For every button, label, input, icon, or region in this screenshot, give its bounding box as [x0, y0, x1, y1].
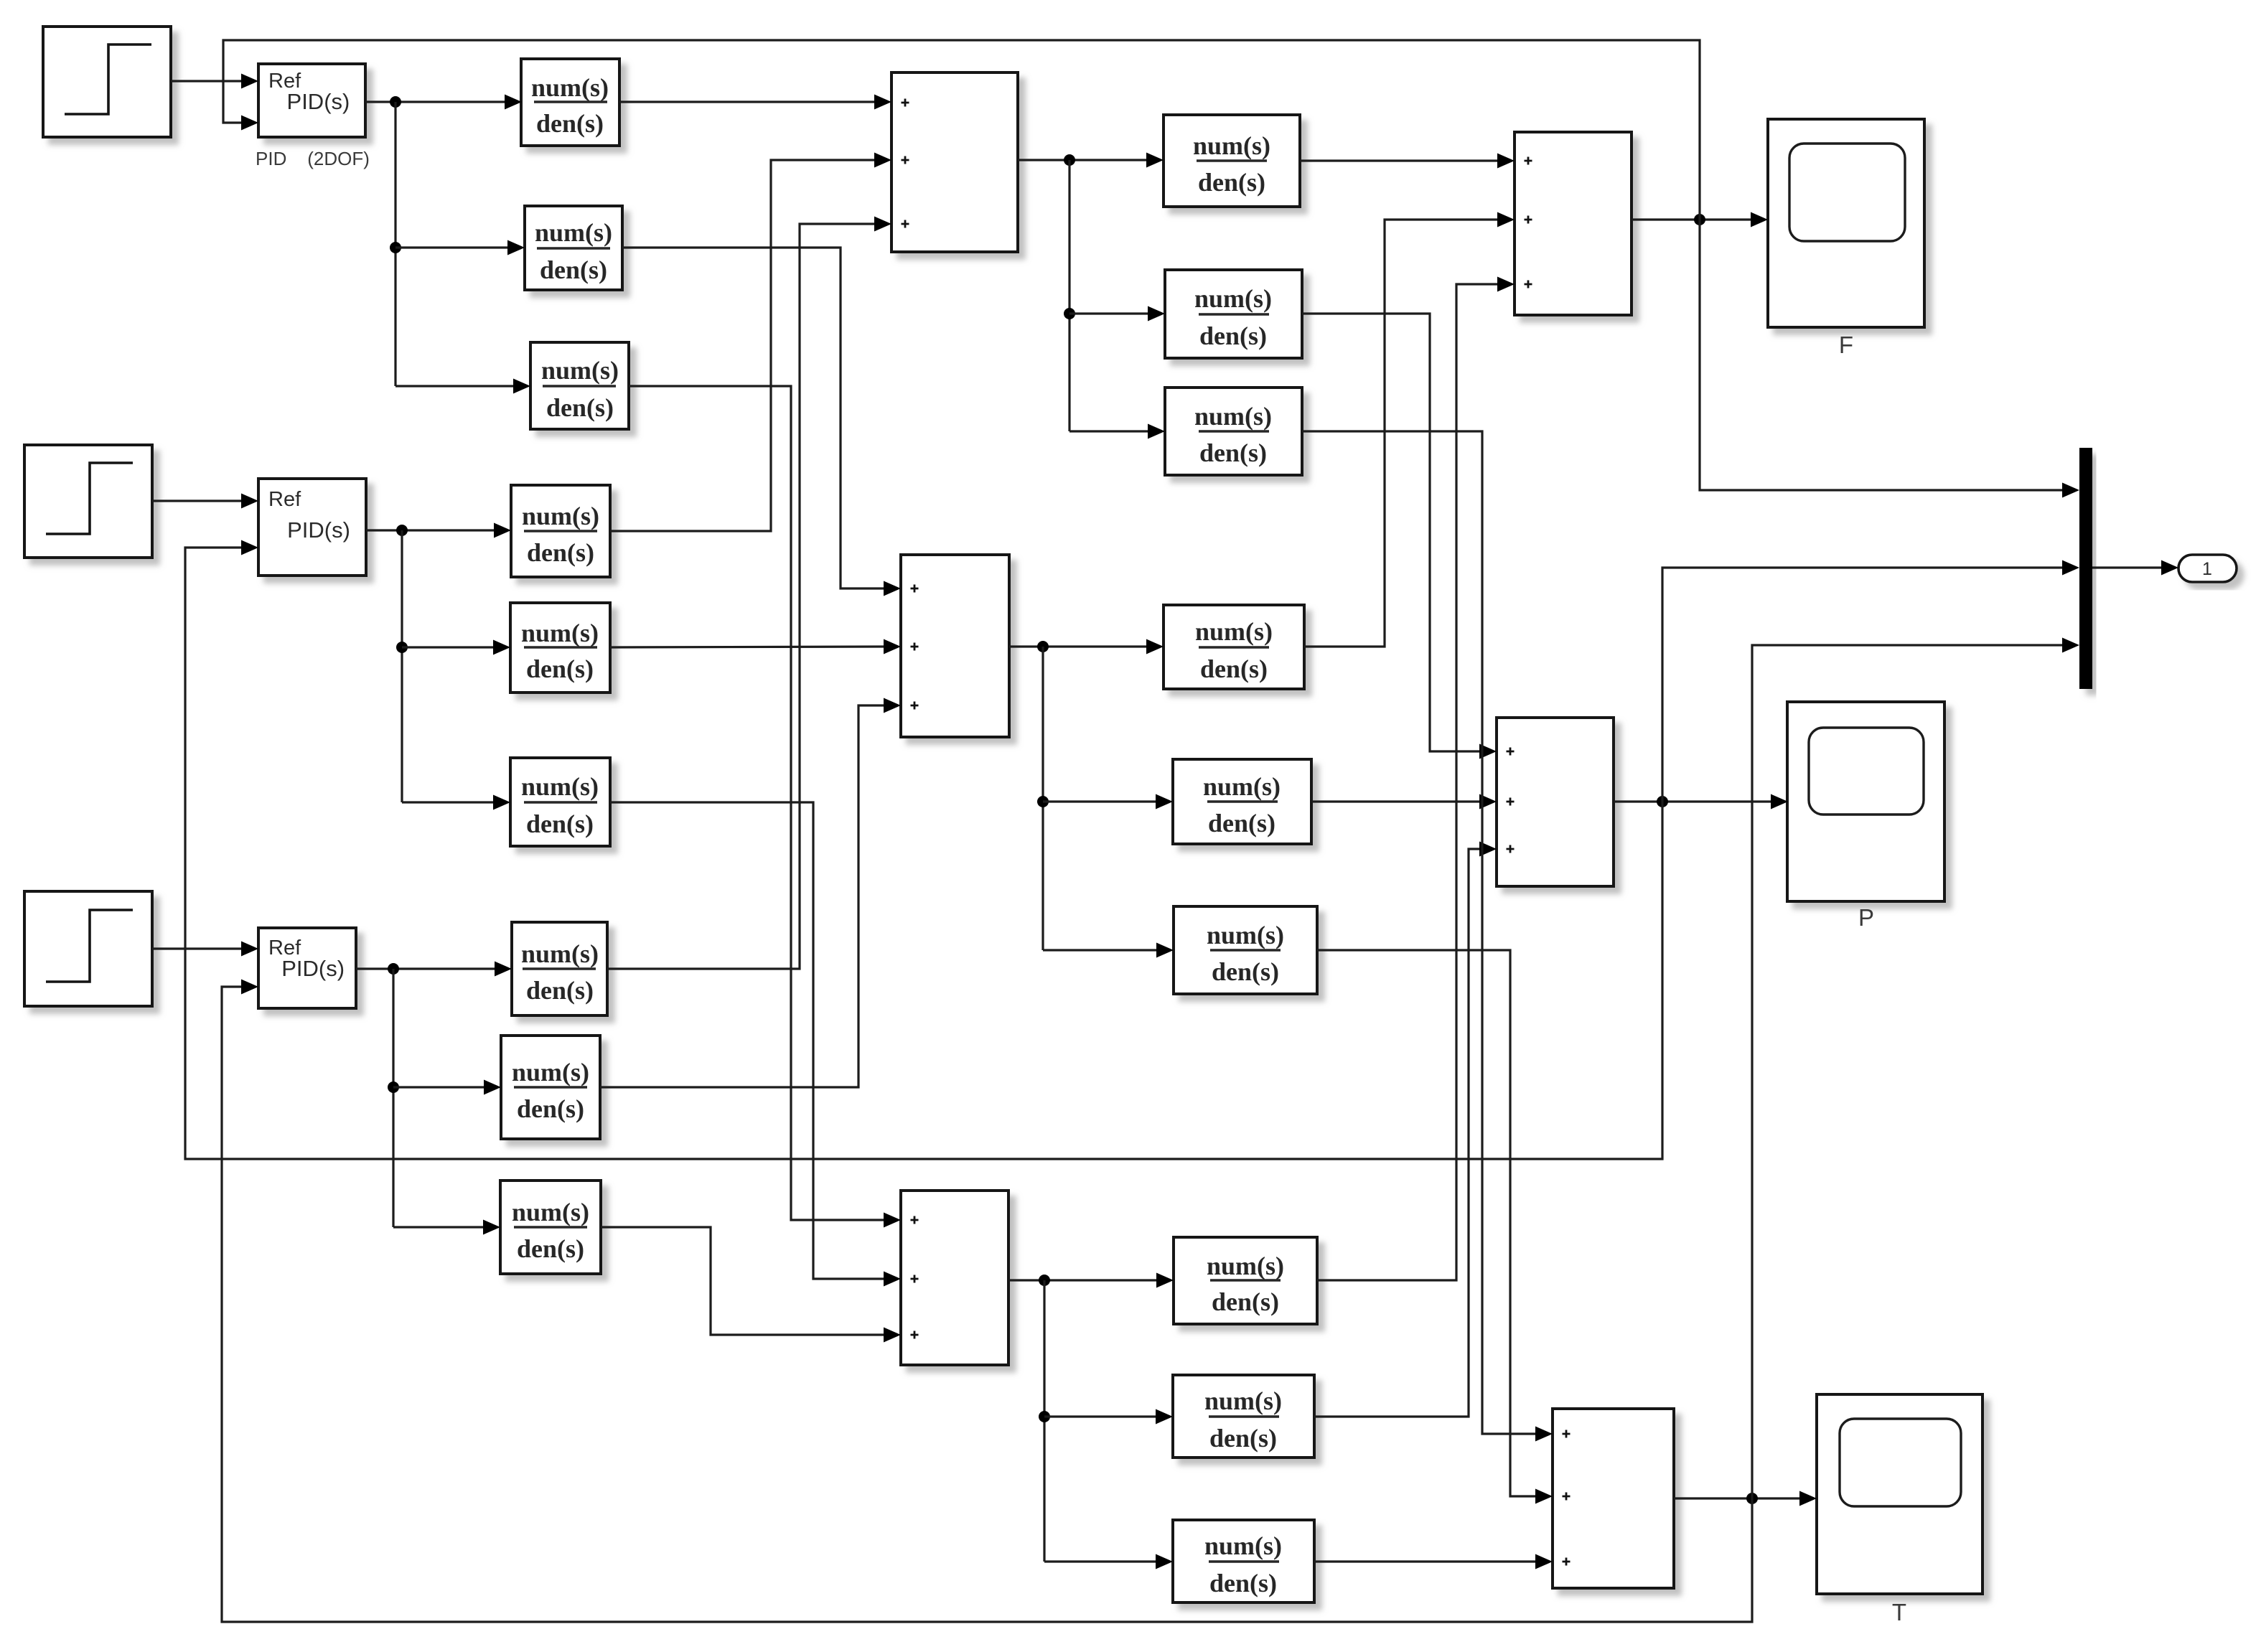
svg-text:den(s): den(s): [1212, 957, 1279, 986]
svg-text:den(s): den(s): [1212, 1287, 1279, 1316]
wire Add6 out to scope T: [1674, 1497, 1800, 1499]
scope P: [1787, 702, 1944, 901]
sum block Add5: [901, 1191, 1008, 1365]
wire H31 to Add2 in3: [1317, 284, 1497, 1280]
transfer function TF H13 num(s)/den(s): [1165, 388, 1302, 475]
wire G22 to Add3 in2: [610, 647, 884, 647]
wire G33 to Add5 in3: [601, 1227, 884, 1335]
transfer function TF H22 num(s)/den(s): [1173, 759, 1311, 844]
svg-text:den(s): den(s): [526, 976, 594, 1005]
wire branch to G21: [395, 246, 508, 248]
transfer function TF H11 num(s)/den(s): [1164, 115, 1300, 207]
wire Add5 out to H31: [1008, 1279, 1157, 1281]
sum block Add4: [1497, 718, 1614, 886]
svg-text:num(s): num(s): [1204, 1386, 1282, 1415]
svg-text:num(s): num(s): [541, 356, 619, 385]
PID controller PID (2DOF): [258, 64, 365, 137]
svg-text:num(s): num(s): [521, 772, 599, 801]
wire T feedback to PID3: [222, 987, 1752, 1622]
svg-text:num(s): num(s): [522, 502, 599, 530]
step input Step2: [24, 445, 152, 558]
svg-text:den(s): den(s): [1200, 654, 1268, 683]
wire G32 to Add5 in2: [610, 802, 884, 1279]
wire Add1 branch down: [1068, 160, 1070, 431]
svg-text:den(s): den(s): [540, 255, 607, 284]
wire G23 to Add3 in3: [600, 705, 884, 1087]
output port 1: [2178, 555, 2237, 582]
wire PID2 out branch down: [401, 530, 403, 802]
wire G31 to Add5 in1: [629, 386, 884, 1220]
wire branch to G31: [395, 385, 514, 387]
wire H13 to Add6 in1: [1302, 431, 1536, 1434]
svg-text:num(s): num(s): [1194, 402, 1272, 431]
svg-text:PID(s): PID(s): [287, 517, 350, 543]
PID controller PID3: [258, 928, 356, 1008]
svg-text:P: P: [1858, 904, 1874, 931]
svg-text:den(s): den(s): [517, 1094, 584, 1123]
wire branch to H22: [1043, 800, 1156, 802]
svg-text:1: 1: [2202, 559, 2212, 579]
wire PID1 out branch down: [394, 102, 396, 386]
transfer function TF H12 num(s)/den(s): [1165, 270, 1302, 358]
wire branch to H33: [1044, 1560, 1156, 1562]
svg-text:PID(s): PID(s): [287, 89, 350, 114]
wire Add5 branch down: [1043, 1280, 1045, 1562]
wire G12 to Add1 in2: [610, 160, 875, 531]
transfer function TF H31 num(s)/den(s): [1174, 1237, 1317, 1324]
svg-text:num(s): num(s): [1203, 772, 1281, 801]
wire PID3 out to G13: [356, 967, 495, 970]
wire H11 to Add2 in1: [1300, 159, 1497, 161]
transfer function TF G12 num(s)/den(s): [511, 485, 610, 577]
sum block Add3: [901, 555, 1009, 737]
wire branch to H12: [1069, 312, 1148, 314]
sum block Add1: [891, 72, 1018, 252]
wire H32 to Add4 in3: [1314, 849, 1480, 1417]
svg-text:num(s): num(s): [1195, 617, 1273, 646]
wire P to mux in2: [1662, 568, 2063, 802]
wire PID3 out branch down: [392, 969, 394, 1227]
svg-text:den(s): den(s): [1199, 438, 1267, 467]
svg-text:den(s): den(s): [526, 654, 594, 683]
transfer function TF G22 num(s)/den(s): [510, 603, 610, 693]
wire Step1 to PID1 Ref: [171, 80, 242, 82]
step input Step1: [43, 27, 171, 137]
svg-text:T: T: [1892, 1599, 1906, 1625]
mux Mux1: [2079, 448, 2092, 689]
wire G21 to Add3 in1: [622, 248, 884, 588]
wire F to mux in1: [1700, 220, 2063, 490]
svg-text:num(s): num(s): [1207, 1252, 1284, 1280]
wire T to mux in3: [1752, 645, 2063, 1498]
svg-text:num(s): num(s): [1193, 131, 1270, 160]
svg-text:num(s): num(s): [1207, 921, 1284, 949]
wire branch to G22: [402, 646, 494, 648]
wire branch to G23: [393, 1086, 484, 1088]
transfer function TF G11 num(s)/den(s): [521, 59, 619, 146]
wire H12 to Add4 in1: [1302, 314, 1480, 751]
transfer function TF H23 num(s)/den(s): [1174, 906, 1317, 994]
scope F: [1768, 119, 1924, 327]
svg-text:PID(s): PID(s): [281, 956, 345, 981]
wire branch to G32: [402, 801, 494, 803]
transfer function TF G21 num(s)/den(s): [525, 206, 622, 290]
transfer function TF G23 num(s)/den(s): [501, 1036, 600, 1139]
svg-text:Ref: Ref: [268, 488, 301, 511]
svg-text:F: F: [1839, 332, 1853, 358]
transfer function TF G32 num(s)/den(s): [510, 758, 610, 846]
sum block Add6: [1553, 1409, 1674, 1588]
svg-text:num(s): num(s): [1204, 1531, 1282, 1560]
sum block Add2: [1515, 132, 1632, 315]
svg-text:den(s): den(s): [1209, 1424, 1277, 1452]
wire Add3 branch down: [1041, 647, 1044, 950]
svg-text:den(s): den(s): [527, 538, 594, 567]
svg-text:num(s): num(s): [1194, 284, 1272, 313]
svg-text:num(s): num(s): [512, 1198, 589, 1226]
transfer function TF H21 num(s)/den(s): [1164, 605, 1304, 689]
wire P feedback to PID2: [185, 548, 1662, 1159]
wire PID2 out to G12: [366, 529, 495, 531]
wire branch to H23: [1043, 949, 1157, 951]
wire branch to H13: [1069, 430, 1148, 432]
wire G13 to Add1 in3: [607, 224, 875, 969]
wire H23 to Add6 in2: [1317, 950, 1536, 1496]
wire H22 to Add4 in2: [1311, 800, 1480, 802]
svg-text:den(s): den(s): [1208, 809, 1275, 837]
svg-text:den(s): den(s): [526, 809, 594, 838]
svg-text:num(s): num(s): [521, 619, 599, 647]
wire F feedback to PID1: [223, 40, 1700, 220]
wire mux to out port 1: [2092, 566, 2162, 568]
wire Add3 out to H21: [1009, 645, 1147, 647]
wire Step3 to PID3 Ref: [152, 947, 242, 949]
svg-text:den(s): den(s): [1209, 1569, 1277, 1597]
wire PID1 out to G11: [365, 100, 505, 103]
scope T: [1817, 1394, 1983, 1594]
svg-text:num(s): num(s): [535, 218, 612, 247]
wire Add4 out to scope P: [1614, 800, 1771, 802]
svg-text:den(s): den(s): [1199, 322, 1267, 350]
wire Add1 out to H11: [1018, 159, 1147, 161]
wire Step2 to PID2 Ref: [152, 499, 242, 502]
transfer function TF G31 num(s)/den(s): [530, 342, 629, 429]
svg-text:den(s): den(s): [1198, 168, 1265, 197]
step input Step3: [24, 891, 152, 1006]
svg-text:den(s): den(s): [536, 109, 604, 138]
wire H21 to Add2 in2: [1304, 220, 1497, 647]
wire branch to G33: [393, 1226, 484, 1228]
wire branch to H32: [1044, 1415, 1156, 1417]
wire H33 to Add6 in3: [1314, 1560, 1536, 1562]
svg-text:num(s): num(s): [531, 73, 609, 102]
wire Add2 out to scope F: [1632, 218, 1751, 220]
transfer function TF H32 num(s)/den(s): [1173, 1375, 1314, 1458]
PID controller PID2: [258, 479, 366, 576]
svg-text:num(s): num(s): [512, 1058, 589, 1087]
svg-text:den(s): den(s): [546, 393, 614, 422]
svg-text:num(s): num(s): [521, 939, 599, 968]
svg-text:PID (2DOF): PID (2DOF): [256, 148, 370, 169]
transfer function TF G13 num(s)/den(s): [512, 922, 607, 1015]
wire G11 to Add1 in1: [619, 100, 875, 103]
transfer function TF H33 num(s)/den(s): [1173, 1520, 1314, 1602]
transfer function TF G33 num(s)/den(s): [500, 1181, 601, 1274]
svg-text:den(s): den(s): [517, 1234, 584, 1263]
